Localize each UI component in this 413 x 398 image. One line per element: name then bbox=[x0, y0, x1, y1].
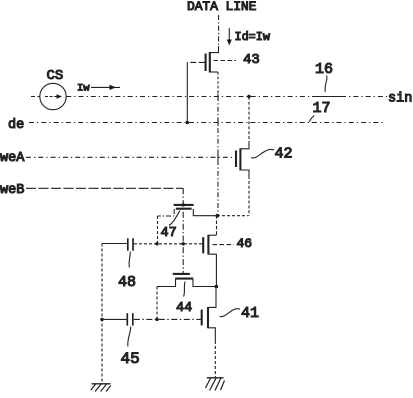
node junction Q44 lead on C45 line bbox=[155, 318, 158, 321]
wire weA net to Q42 gate bbox=[26, 156, 235, 158]
node junction Q42 drain on sin line bbox=[247, 95, 250, 98]
wire main vertical from Q43 source down bbox=[217, 96, 219, 216]
wire weB branch down to Q47 and Q44 gates bbox=[182, 188, 184, 273]
capacitor C48 bbox=[128, 238, 133, 250]
label 46 pointer bbox=[213, 244, 235, 246]
wire Q44 left lead down to C45 line bbox=[156, 287, 158, 320]
node junction weB branch on C48 line bbox=[182, 242, 185, 245]
label 45 pointer bbox=[128, 327, 131, 347]
svg-text:16: 16 bbox=[315, 61, 333, 78]
node crossing tick de line bbox=[217, 120, 219, 126]
node junction Q44 right lead on Q46 source bbox=[215, 285, 219, 289]
svg-text:Iw: Iw bbox=[77, 83, 90, 95]
wire C45 left plate to left rail bbox=[102, 318, 126, 320]
svg-text:17: 17 bbox=[313, 100, 331, 117]
svg-text:42: 42 bbox=[275, 145, 293, 162]
svg-text:DATA LINE: DATA LINE bbox=[187, 0, 257, 14]
svg-text:CS: CS bbox=[47, 68, 64, 84]
wire Q43 gate to de line bbox=[186, 62, 188, 122]
svg-text:44: 44 bbox=[176, 301, 192, 316]
svg-text:weA: weA bbox=[0, 151, 25, 166]
label 47 pointer bbox=[169, 211, 180, 226]
svg-text:sin: sin bbox=[388, 92, 412, 107]
svg-text:48: 48 bbox=[118, 274, 136, 291]
svg-text:de: de bbox=[8, 118, 24, 133]
wire C45 right plate to Q41 gate bbox=[134, 318, 201, 320]
label Id=Iw current arrow bbox=[227, 28, 270, 46]
label 42 pointer bbox=[251, 149, 274, 158]
label 17 pointer bbox=[310, 116, 315, 123]
transistor Q43 bbox=[187, 46, 218, 96]
wire sin net horizontal line bbox=[31, 96, 387, 98]
wire data line vertical bbox=[218, 15, 220, 47]
ground left bbox=[91, 384, 111, 392]
wire de net horizontal line bbox=[29, 122, 385, 124]
wire Q47 left lead down to cap node bbox=[157, 216, 159, 244]
wire node junction main vertical meets Q47/Q42/Q46 bbox=[217, 215, 249, 217]
label 16 pointer bbox=[325, 76, 327, 93]
transistor Q44 bbox=[157, 274, 216, 287]
transistor Q47 bbox=[158, 205, 218, 216]
svg-text:45: 45 bbox=[121, 350, 140, 368]
label 44 pointer bbox=[184, 282, 186, 297]
svg-text:43: 43 bbox=[243, 52, 260, 68]
node junction Q47 gate bbox=[182, 203, 185, 206]
node junction Q47 lead on C48 line bbox=[155, 242, 158, 245]
label 41 pointer bbox=[220, 309, 241, 317]
wire C48 right plate to Q46 gate bbox=[134, 243, 203, 245]
transistor Q46 bbox=[203, 235, 216, 287]
svg-text:weB: weB bbox=[0, 183, 24, 198]
capacitor C45 bbox=[127, 313, 133, 325]
svg-text:Id=Iw: Id=Iw bbox=[235, 30, 270, 44]
node junction Q43 gate on de line bbox=[186, 121, 189, 124]
transistor Q41 bbox=[202, 287, 216, 342]
wire weB net bbox=[26, 187, 183, 189]
transistor Q42 bbox=[236, 97, 249, 216]
svg-text:46: 46 bbox=[237, 236, 253, 251]
label Iw with arrow bbox=[77, 83, 120, 95]
svg-text:41: 41 bbox=[241, 305, 259, 322]
svg-text:47: 47 bbox=[161, 226, 177, 241]
wire C48 left plate to left rail bbox=[102, 243, 127, 245]
current source CS bbox=[40, 83, 66, 109]
node crossing tick sin line bbox=[217, 94, 219, 100]
label 48 pointer bbox=[129, 252, 130, 268]
node junction left rail on C45 line bbox=[100, 318, 103, 321]
label 43 pointer bbox=[214, 60, 237, 62]
wire Q41 source to ground bbox=[214, 341, 216, 378]
wire Q46 drain up to junction bbox=[216, 216, 218, 235]
wire left rail vertical bbox=[101, 244, 103, 384]
ground center bbox=[206, 378, 225, 391]
node crossing tick weA line bbox=[217, 154, 219, 160]
